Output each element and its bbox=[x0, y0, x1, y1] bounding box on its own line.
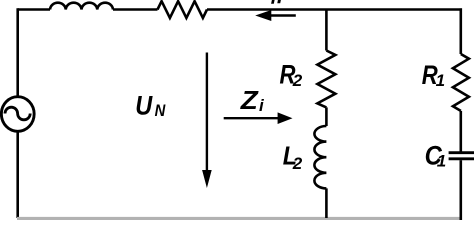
wire between inductor and resistor bbox=[113, 8, 158, 11]
wire middle branch top lead bbox=[325, 10, 328, 51]
impedance arrow Z_i (points right) bbox=[224, 117, 278, 119]
svg-text:U: U bbox=[135, 91, 153, 121]
wire R2 to L2 bbox=[325, 107, 328, 126]
svg-text:2: 2 bbox=[292, 154, 303, 173]
svg-text:1: 1 bbox=[437, 152, 446, 171]
svg-text:Z: Z bbox=[240, 86, 260, 115]
resistor (top, unlabeled) bbox=[158, 1, 208, 18]
wire C1 to bottom bbox=[459, 160, 462, 220]
voltage arrow U_N (points down) bbox=[206, 53, 208, 173]
current arrow I_N (points left) bbox=[271, 14, 296, 16]
wire R1 to C1 bbox=[459, 111, 462, 152]
wire right vertical top lead bbox=[459, 8, 462, 54]
inductor L2 bbox=[314, 126, 326, 188]
wire left vertical (source top lead) bbox=[16, 8, 19, 96]
wire left vertical (source bottom lead) bbox=[16, 131, 19, 218]
label I_N (clipped at top edge, only glyph bottoms visible) bbox=[271, 0, 281, 4]
resistor R2 bbox=[317, 51, 335, 108]
wire bottom (gray) bbox=[17, 217, 462, 220]
svg-text:2: 2 bbox=[292, 71, 303, 90]
svg-text:N: N bbox=[155, 102, 166, 120]
ac source V bbox=[1, 97, 34, 132]
inductor (top, unlabeled) bbox=[50, 3, 113, 10]
svg-text:1: 1 bbox=[436, 71, 445, 90]
wire L2 to bottom bbox=[325, 188, 328, 218]
resistor R1 bbox=[453, 54, 469, 111]
wire resistor to top-right corner bbox=[207, 8, 460, 11]
wire top-left horizontal segment bbox=[18, 8, 50, 11]
ac source sine symbol bbox=[5, 107, 30, 120]
capacitor C1 bbox=[449, 153, 474, 159]
svg-text:i: i bbox=[259, 96, 265, 115]
